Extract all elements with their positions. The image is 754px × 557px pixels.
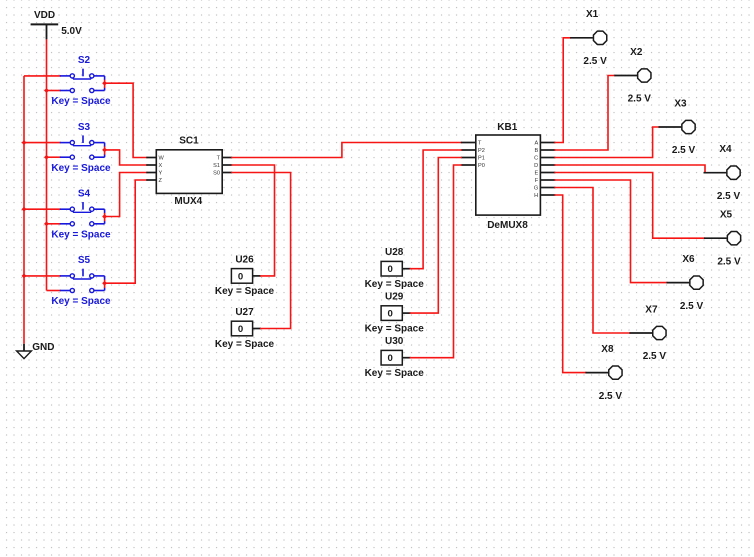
svg-text:S4: S4 — [78, 188, 91, 199]
svg-text:Key = Space: Key = Space — [51, 163, 111, 174]
svg-text:X7: X7 — [645, 304, 658, 315]
svg-text:Key = Space: Key = Space — [215, 286, 275, 297]
svg-text:S3: S3 — [78, 122, 91, 133]
svg-text:5.0V: 5.0V — [61, 26, 82, 37]
svg-text:U29: U29 — [385, 292, 404, 303]
svg-text:Key = Space: Key = Space — [51, 296, 111, 307]
svg-text:Y: Y — [159, 171, 163, 177]
svg-text:Key = Space: Key = Space — [365, 323, 425, 334]
svg-text:2.5 V: 2.5 V — [672, 145, 696, 156]
svg-text:2.5 V: 2.5 V — [643, 351, 667, 362]
svg-text:0: 0 — [388, 353, 393, 364]
svg-text:GND: GND — [32, 342, 54, 353]
svg-text:X1: X1 — [586, 9, 599, 20]
svg-text:S2: S2 — [78, 55, 91, 66]
svg-text:H: H — [534, 193, 538, 199]
svg-text:0: 0 — [238, 324, 243, 335]
svg-text:MUX4: MUX4 — [174, 196, 202, 207]
svg-text:A: A — [534, 141, 538, 147]
svg-text:X8: X8 — [601, 344, 614, 355]
svg-text:D: D — [534, 163, 538, 169]
svg-text:F: F — [535, 178, 539, 184]
svg-text:X: X — [159, 163, 163, 169]
svg-text:P2: P2 — [478, 148, 485, 154]
svg-text:2.5 V: 2.5 V — [680, 301, 704, 312]
svg-text:Key = Space: Key = Space — [215, 339, 275, 350]
svg-text:0: 0 — [238, 271, 243, 282]
svg-text:S5: S5 — [78, 255, 91, 266]
svg-text:P1: P1 — [478, 156, 485, 162]
svg-text:X6: X6 — [682, 254, 695, 265]
svg-text:X3: X3 — [674, 98, 687, 109]
svg-text:Key = Space: Key = Space — [365, 279, 425, 290]
svg-text:X2: X2 — [630, 47, 643, 58]
svg-text:2.5 V: 2.5 V — [599, 391, 623, 402]
svg-text:0: 0 — [388, 264, 393, 275]
svg-text:U28: U28 — [385, 247, 404, 258]
svg-text:SC1: SC1 — [179, 135, 199, 146]
svg-text:DeMUX8: DeMUX8 — [487, 220, 528, 231]
svg-text:Key = Space: Key = Space — [51, 229, 111, 240]
svg-text:T: T — [217, 156, 221, 162]
svg-text:0: 0 — [388, 309, 393, 320]
svg-text:2.5 V: 2.5 V — [583, 56, 607, 67]
svg-text:P0: P0 — [478, 163, 485, 169]
svg-text:C: C — [534, 156, 538, 162]
svg-text:S0: S0 — [213, 171, 220, 177]
svg-text:Key = Space: Key = Space — [51, 96, 111, 107]
svg-text:X4: X4 — [719, 144, 732, 155]
svg-text:2.5 V: 2.5 V — [717, 256, 741, 267]
svg-text:B: B — [534, 148, 538, 154]
svg-text:VDD: VDD — [34, 10, 55, 21]
svg-text:U30: U30 — [385, 336, 404, 347]
svg-text:U27: U27 — [235, 307, 254, 318]
svg-text:Key = Space: Key = Space — [365, 368, 425, 379]
svg-text:X5: X5 — [720, 210, 733, 221]
svg-text:E: E — [534, 171, 538, 177]
svg-text:Z: Z — [159, 178, 163, 184]
svg-text:U26: U26 — [235, 254, 254, 265]
svg-text:2.5 V: 2.5 V — [628, 94, 652, 105]
svg-text:G: G — [534, 186, 538, 192]
svg-text:S1: S1 — [213, 163, 220, 169]
svg-text:2.5 V: 2.5 V — [717, 191, 741, 202]
svg-text:W: W — [159, 156, 165, 162]
svg-text:KB1: KB1 — [497, 122, 517, 133]
svg-text:T: T — [478, 141, 482, 147]
